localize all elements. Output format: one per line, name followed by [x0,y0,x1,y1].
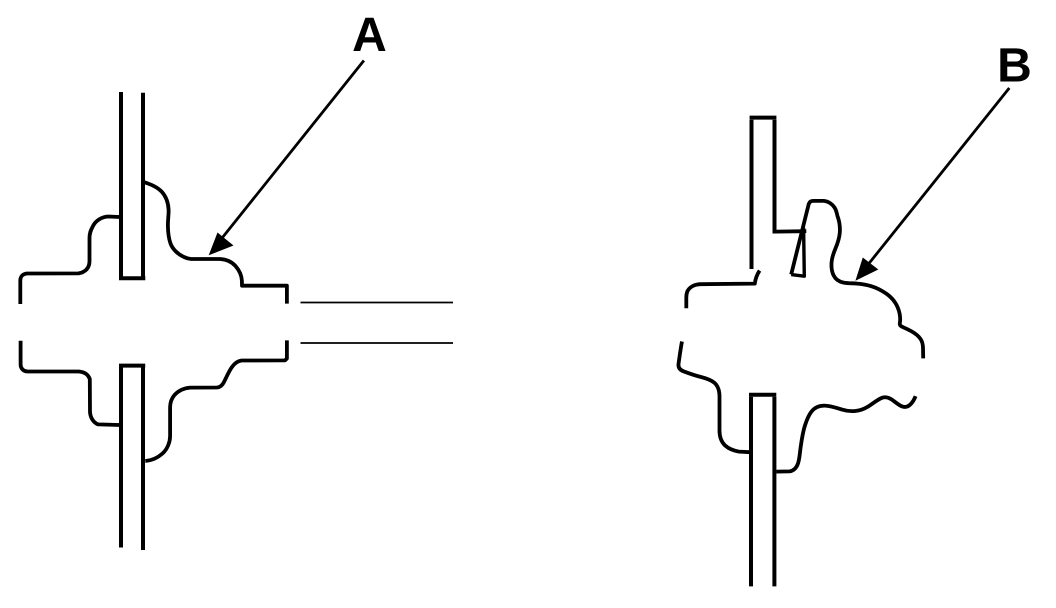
svg-text:B: B [997,40,1032,93]
right figure: weld outline left-mid [678,342,750,453]
right figure: horizontal from stud right [776,229,807,233]
right figure: weld outline bottom stub and wiggle [776,396,915,471]
right figure: weld thumb and right descent [791,201,923,359]
right figure: stud upper shank [750,118,777,269]
left figure: weld outline upper-right [143,182,287,304]
right figure: stud lower shank [749,395,776,587]
left figure: stud upper shank [119,92,145,278]
left figure: weld outline upper-left [20,217,119,305]
arrow A shaft [213,61,364,251]
right figure: weld outline top-left [686,271,759,309]
arrow B shaft [859,88,1010,277]
left figure: panel upper thin line [301,302,454,304]
left figure: weld outline lower-left [21,341,120,425]
left figure: weld outline lower-right [145,340,287,461]
svg-text:A: A [352,9,387,62]
arrow B head [855,258,878,281]
arrow A head [209,233,234,256]
left figure: panel lower thin line [301,342,454,344]
right figure: sliver void [791,228,804,276]
left figure: stud lower shank [119,366,145,550]
